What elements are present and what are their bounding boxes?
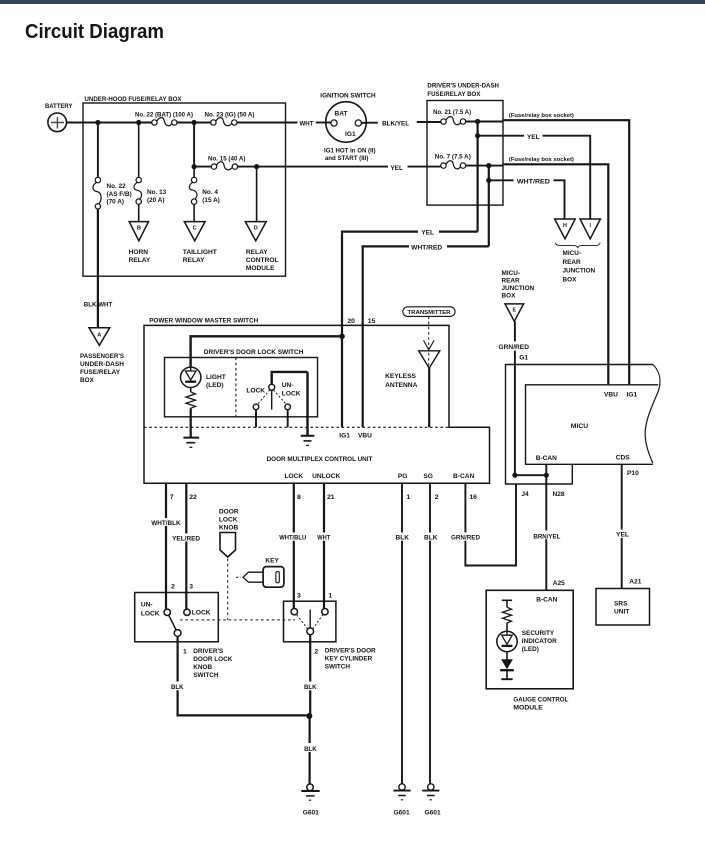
node main bus junction 2	[136, 120, 141, 125]
wire fuse22 to fuse23	[177, 122, 211, 124]
svg-text:BOX: BOX	[563, 276, 578, 283]
ground G601 switches	[301, 784, 319, 817]
wire YEL left branch to pin 20	[342, 230, 478, 428]
wire antenna to control unit	[428, 368, 430, 427]
connector B triangle horn relay	[129, 222, 151, 265]
svg-text:J4: J4	[521, 491, 529, 498]
wire YEL to connector I	[478, 134, 591, 219]
gauge control module box	[486, 590, 573, 711]
svg-text:UNIT: UNIT	[614, 609, 629, 616]
wire fuse7 branch down	[488, 166, 490, 247]
wire junction to relay D	[256, 167, 258, 222]
wire unlock contact to control unit	[287, 410, 289, 428]
svg-text:IG1 HOT in ON (II): IG1 HOT in ON (II)	[324, 147, 376, 154]
svg-text:GRN/RED: GRN/RED	[499, 344, 530, 351]
wire B-CAN link	[515, 474, 546, 476]
svg-text:RELAY: RELAY	[246, 249, 268, 256]
svg-text:SWITCH: SWITCH	[193, 672, 219, 679]
svg-text:BLK/YEL: BLK/YEL	[382, 121, 409, 128]
svg-text:SECURITY: SECURITY	[522, 630, 555, 637]
svg-text:WHT: WHT	[300, 121, 314, 128]
svg-text:2: 2	[171, 583, 175, 590]
driver's door lock knob switch box	[135, 593, 219, 642]
label door lock knob	[219, 508, 239, 531]
svg-text:VBU: VBU	[358, 433, 372, 440]
door lock knob symbol	[220, 533, 236, 558]
wire pin 21 WHT	[317, 483, 330, 608]
svg-text:SRS: SRS	[614, 601, 628, 608]
fuse No.22 (AS F/B) (70 A) vertical	[93, 123, 132, 210]
connector A triangle	[89, 328, 110, 346]
wire second row to YEL	[238, 166, 388, 168]
label micu-rear junction box right	[563, 250, 596, 283]
label driver's door lock knob switch	[193, 648, 232, 679]
svg-text:GRN/RED: GRN/RED	[451, 535, 480, 542]
svg-text:UNLOCK: UNLOCK	[312, 473, 340, 480]
wire fuse13 to relay B	[138, 204, 140, 221]
svg-text:SG: SG	[423, 473, 433, 480]
svg-text:ANTENNA: ANTENNA	[385, 382, 417, 389]
svg-text:POWER WINDOW MASTER SWITCH: POWER WINDOW MASTER SWITCH	[149, 318, 258, 325]
svg-text:No. 15 (40 A): No. 15 (40 A)	[208, 156, 246, 163]
LED light indicator	[181, 367, 226, 389]
svg-text:IG1: IG1	[345, 131, 356, 138]
svg-text:WHT/BLU: WHT/BLU	[279, 535, 306, 542]
node relay control junction	[254, 164, 259, 169]
wire fuse/relay box socket 1 to IG1 MICU	[503, 113, 629, 385]
svg-text:LOCK: LOCK	[219, 516, 238, 523]
svg-text:15: 15	[368, 318, 376, 325]
wire lock contact to control unit	[255, 410, 257, 428]
svg-text:2: 2	[435, 494, 439, 501]
ground G601 SG	[422, 784, 441, 817]
wire pin 7 WHT/BLK	[151, 483, 181, 609]
node LED feed junction	[339, 334, 345, 340]
svg-text:BOX: BOX	[80, 377, 95, 384]
wire battery to fuse box	[67, 122, 152, 124]
svg-text:G601: G601	[425, 810, 441, 817]
svg-text:BLK: BLK	[304, 746, 317, 753]
svg-text:KNOB: KNOB	[219, 524, 239, 531]
svg-text:YEL: YEL	[421, 230, 434, 237]
svg-text:D: D	[254, 226, 258, 232]
svg-text:JUNCTION: JUNCTION	[563, 268, 596, 275]
fuse No.22 (BAT) (100 A)	[135, 112, 193, 126]
svg-text:3: 3	[297, 593, 301, 600]
knob switch lever	[169, 615, 177, 630]
svg-text:B: B	[137, 226, 141, 232]
svg-text:WHT/RED: WHT/RED	[517, 179, 550, 186]
svg-text:(AS F/B): (AS F/B)	[107, 191, 132, 198]
connector D triangle relay control module	[245, 222, 278, 273]
svg-text:7: 7	[170, 494, 174, 501]
wire BRN/YEL label	[533, 531, 561, 541]
svg-text:(20 A): (20 A)	[147, 197, 165, 204]
svg-text:BLK: BLK	[304, 684, 317, 691]
svg-text:A: A	[97, 333, 101, 339]
svg-text:LOCK: LOCK	[282, 390, 301, 397]
wire YEL label to under-dash box	[390, 165, 440, 172]
wire bus drop to second row	[193, 123, 195, 167]
fuse No.7 (7.5 A)	[435, 154, 471, 169]
svg-text:WHT: WHT	[317, 535, 330, 542]
svg-text:Circuit Diagram: Circuit Diagram	[25, 21, 164, 43]
dashed lever throws	[297, 615, 324, 630]
dashed wave path transmitter to antenna	[428, 316, 430, 367]
svg-text:(70 A): (70 A)	[107, 199, 125, 206]
svg-text:KEY: KEY	[265, 557, 279, 564]
resistor below LED	[186, 388, 195, 409]
svg-text:DRIVER'S: DRIVER'S	[193, 648, 224, 655]
svg-text:TRANSMITTER: TRANSMITTER	[408, 310, 452, 316]
pin labels bottom row inside box	[285, 473, 475, 480]
svg-text:UNDER-HOOD FUSE/RELAY BOX: UNDER-HOOD FUSE/RELAY BOX	[85, 96, 182, 103]
brace under H and I	[555, 243, 600, 248]
fuse No.15 (40 A)	[194, 156, 245, 170]
svg-text:(15 A): (15 A)	[202, 197, 220, 204]
wire WHT/RED left branch to pin 15	[363, 245, 489, 428]
label security indicator	[522, 630, 557, 653]
svg-text:B-CAN: B-CAN	[453, 473, 474, 480]
svg-text:21: 21	[327, 494, 335, 501]
svg-text:C: C	[193, 226, 197, 232]
label driver's door key cylinder switch	[325, 647, 376, 670]
svg-text:BLK: BLK	[396, 535, 410, 542]
svg-text:BLK: BLK	[424, 535, 438, 542]
svg-text:PG: PG	[398, 473, 408, 480]
node B-CAN junction left	[512, 473, 517, 478]
wire BLK common to ground	[304, 716, 317, 784]
svg-text:22: 22	[189, 494, 197, 501]
svg-text:IG1: IG1	[339, 433, 350, 440]
svg-text:FUSE/RELAY BOX: FUSE/RELAY BOX	[427, 91, 480, 98]
node fuse7 junction	[486, 163, 491, 168]
svg-text:BRN/YEL: BRN/YEL	[533, 533, 560, 540]
node fuse21 junction	[475, 119, 480, 124]
MICU outer junction box partial with torn edge	[506, 365, 660, 485]
svg-text:VBU: VBU	[604, 391, 618, 398]
wire BLK/YEL ignition to under-dash box	[362, 121, 441, 128]
driver's under-dash fuse/relay box	[427, 83, 503, 206]
wire key cylinder common pin 2 BLK	[304, 635, 318, 717]
svg-text:(LED): (LED)	[206, 382, 224, 389]
svg-text:REAR: REAR	[563, 259, 581, 266]
svg-text:FUSE/RELAY: FUSE/RELAY	[80, 369, 121, 376]
ignition switch	[320, 93, 375, 163]
key symbol	[236, 557, 284, 587]
svg-text:3: 3	[189, 583, 193, 590]
svg-text:BLK: BLK	[171, 684, 184, 691]
label passenger's under-dash fuse/relay box	[80, 353, 125, 384]
wire pin 16 GRN/RED to J4	[451, 483, 516, 565]
wire fuse4 to relay C	[193, 204, 195, 221]
svg-text:(Fuse/relay box socket): (Fuse/relay box socket)	[509, 157, 574, 163]
svg-text:N28: N28	[553, 491, 565, 498]
svg-text:UNDER-DASH: UNDER-DASH	[80, 361, 124, 368]
svg-text:HORN: HORN	[129, 249, 149, 256]
svg-text:G1: G1	[519, 355, 528, 362]
connector H triangle	[555, 219, 576, 239]
svg-text:DRIVER'S DOOR LOCK SWITCH: DRIVER'S DOOR LOCK SWITCH	[204, 349, 304, 356]
wire LED to ground	[190, 408, 192, 437]
node B-CAN junction right	[544, 473, 549, 478]
wire GRN/RED connector E down to G1	[499, 321, 530, 475]
keyless antenna symbol	[385, 340, 440, 389]
svg-text:1: 1	[406, 494, 410, 501]
svg-text:No. 21 (7.5 A): No. 21 (7.5 A)	[433, 109, 471, 116]
svg-text:RELAY: RELAY	[129, 257, 151, 264]
svg-text:UN-: UN-	[141, 602, 153, 609]
svg-text:RELAY: RELAY	[183, 257, 205, 264]
svg-text:MICU-: MICU-	[563, 250, 581, 257]
fuse No.21 (7.5 A)	[433, 109, 471, 125]
svg-text:DRIVER'S DOOR: DRIVER'S DOOR	[325, 647, 376, 654]
svg-text:GAUGE CONTROL: GAUGE CONTROL	[513, 696, 568, 703]
fuse No.4 (15 A) vertical	[189, 167, 219, 205]
ground G601 PG	[393, 784, 410, 817]
wire fuse7 output to box edge	[466, 165, 503, 167]
svg-text:8: 8	[297, 494, 301, 501]
driver's door lock switch box	[165, 349, 318, 417]
dashed boundary door multiplex control unit	[144, 426, 449, 428]
wire LED feed	[191, 336, 342, 367]
label micu-rear junction box left	[502, 270, 535, 300]
svg-text:KEY CYLINDER: KEY CYLINDER	[325, 655, 373, 662]
svg-text:1: 1	[328, 593, 332, 600]
svg-text:B-CAN: B-CAN	[536, 596, 557, 603]
wire fuse AS F/B down through box, BLK/WHT	[84, 209, 113, 328]
wire fuse/relay box socket 2 to VBU MICU	[503, 157, 608, 385]
svg-text:LOCK: LOCK	[246, 387, 265, 394]
node main bus junction 1	[95, 120, 100, 125]
svg-text:1: 1	[183, 648, 187, 655]
fuse No.13 (20 A) vertical	[134, 123, 167, 205]
svg-text:IGNITION SWITCH: IGNITION SWITCH	[320, 93, 375, 100]
svg-text:H: H	[563, 223, 567, 229]
lock/unlock rocker switch	[246, 372, 307, 410]
svg-text:MICU-: MICU-	[502, 270, 520, 277]
svg-text:No. 13: No. 13	[147, 189, 167, 196]
svg-text:DOOR MULTIPLEX CONTROL UNIT: DOOR MULTIPLEX CONTROL UNIT	[267, 456, 374, 463]
driver's door key cylinder switch box	[284, 601, 336, 642]
ground LED	[183, 438, 199, 448]
under-hood fuse/relay box	[83, 96, 286, 276]
svg-text:B-CAN: B-CAN	[536, 455, 557, 462]
node BLK join	[306, 713, 312, 719]
knob switch contacts	[164, 609, 190, 636]
pin numbers below box	[170, 494, 477, 501]
svg-text:16: 16	[469, 494, 477, 501]
svg-text:LOCK: LOCK	[285, 473, 304, 480]
battery BAT1	[45, 103, 73, 132]
transmitter bubble	[403, 307, 455, 317]
wire pin 8 WHT/BLU	[279, 483, 306, 608]
svg-text:BATTERY: BATTERY	[45, 103, 73, 110]
wire knob switch common pin 1 BLK	[171, 636, 309, 715]
svg-text:CONTROL: CONTROL	[246, 257, 279, 264]
svg-text:CDS: CDS	[616, 454, 631, 461]
node main bus junction 3	[192, 120, 197, 125]
svg-text:LIGHT: LIGHT	[206, 374, 226, 381]
svg-text:WHT/BLK: WHT/BLK	[151, 520, 181, 527]
dashed mechanical link switches	[180, 619, 295, 621]
ground switch common	[301, 436, 315, 446]
security indicator chain: terminal, resistor R, LED, diode	[497, 600, 517, 679]
svg-text:UN-: UN-	[282, 382, 294, 389]
wire WHT/RED to connector H	[489, 179, 565, 219]
svg-text:LOCK: LOCK	[192, 610, 211, 617]
node YEL branch junction	[475, 133, 480, 138]
svg-text:YEL: YEL	[527, 134, 540, 141]
svg-text:YEL: YEL	[390, 165, 403, 172]
svg-text:BOX: BOX	[502, 292, 517, 299]
wire fuse21 output to box edge	[466, 121, 503, 123]
dashed link knob to switch	[227, 559, 229, 620]
svg-text:No. 22 (BAT) (100 A): No. 22 (BAT) (100 A)	[135, 112, 193, 119]
svg-text:G601: G601	[303, 810, 319, 817]
svg-text:(Fuse/relay box socket): (Fuse/relay box socket)	[509, 113, 574, 119]
svg-text:MODULE: MODULE	[246, 265, 275, 272]
svg-text:KEYLESS: KEYLESS	[385, 373, 416, 380]
svg-text:DOOR: DOOR	[219, 508, 239, 515]
wire CDS pin down YEL	[616, 464, 630, 588]
svg-text:REAR: REAR	[502, 277, 520, 284]
svg-text:2: 2	[314, 648, 318, 655]
svg-text:No. 22: No. 22	[107, 183, 127, 190]
svg-text:LOCK: LOCK	[141, 610, 160, 617]
wire pin 2 SG BLK to ground	[424, 483, 438, 784]
svg-text:G601: G601	[394, 810, 410, 817]
svg-text:SWITCH: SWITCH	[325, 663, 351, 670]
svg-text:P10: P10	[627, 470, 639, 477]
svg-text:INDICATOR: INDICATOR	[522, 638, 557, 645]
key cylinder contacts	[291, 609, 328, 635]
svg-text:No. 23 (IG) (50 A): No. 23 (IG) (50 A)	[205, 112, 255, 119]
dashed divider in door lock switch	[235, 358, 237, 417]
svg-text:A25: A25	[553, 580, 565, 587]
MICU inner box	[526, 385, 659, 465]
wire switch common to ground	[306, 372, 308, 436]
svg-text:DRIVER'S UNDER-DASH: DRIVER'S UNDER-DASH	[427, 83, 499, 90]
node second row junction	[192, 164, 197, 169]
svg-text:IG1: IG1	[627, 391, 638, 398]
svg-text:BLK/WHT: BLK/WHT	[84, 302, 113, 309]
connector I triangle	[580, 219, 600, 239]
top blue bar	[0, 0, 705, 4]
svg-text:MICU: MICU	[571, 423, 588, 430]
svg-text:YEL: YEL	[616, 532, 629, 539]
svg-text:No. 7 (7.5 A): No. 7 (7.5 A)	[435, 154, 471, 161]
svg-text:DOOR LOCK: DOOR LOCK	[193, 656, 232, 663]
key cylinder lever	[309, 610, 311, 628]
svg-text:MODULE: MODULE	[513, 705, 543, 712]
connector C triangle taillight relay	[183, 222, 217, 265]
svg-text:PASSENGER'S: PASSENGER'S	[80, 353, 125, 360]
svg-text:(LED): (LED)	[522, 646, 539, 653]
fuse No.23 (IG) (50 A)	[205, 112, 255, 126]
wire pin 1 PG BLK to ground	[396, 483, 410, 784]
svg-text:20: 20	[347, 318, 355, 325]
svg-text:TAILLIGHT: TAILLIGHT	[183, 249, 217, 256]
svg-text:KNOB: KNOB	[193, 664, 212, 671]
power window master switch box	[144, 318, 490, 484]
svg-text:No. 4: No. 4	[202, 189, 218, 196]
SRS unit box	[596, 589, 650, 626]
node WHT/RED branch junction	[486, 178, 491, 183]
svg-text:E: E	[512, 308, 516, 314]
connector E triangle	[505, 304, 524, 321]
wire B-CAN pin down	[545, 464, 547, 590]
svg-text:JUNCTION: JUNCTION	[502, 285, 535, 292]
svg-text:WHT/RED: WHT/RED	[411, 245, 442, 252]
svg-text:BAT: BAT	[335, 111, 348, 118]
wire pin 22 YEL/RED	[172, 483, 200, 609]
wire fuse21 branch down	[477, 122, 479, 232]
svg-text:and START (III): and START (III)	[325, 155, 369, 162]
wire WHT to ignition switch	[237, 121, 331, 128]
svg-text:A21: A21	[629, 579, 641, 586]
